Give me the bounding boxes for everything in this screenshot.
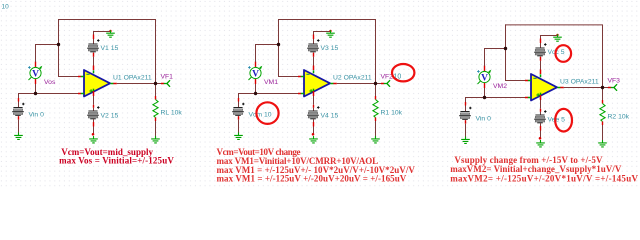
wire probe bottom bbox=[35, 79, 37, 85]
battery V2 15 bbox=[88, 111, 97, 112]
wire probe top tap bbox=[35, 62, 37, 68]
svg-text:V: V bbox=[481, 74, 488, 84]
wire supply top to opamp bbox=[540, 55, 542, 58]
svg-text:VF3: VF3 bbox=[608, 78, 621, 85]
ground supply bottom bbox=[309, 136, 318, 143]
wire output bbox=[113, 83, 117, 85]
wire feedback top rail U3 OPAx211 bbox=[505, 24, 602, 26]
ground source bbox=[234, 133, 243, 140]
wire inverting input row bbox=[505, 80, 525, 82]
annotation circle around Vcm value bbox=[256, 102, 278, 124]
probe VM1 bbox=[249, 68, 261, 80]
svg-text:V1 15: V1 15 bbox=[101, 45, 119, 52]
svg-text:Vin 0: Vin 0 bbox=[29, 112, 45, 119]
wire feedback top rail U2 OPAx211 bbox=[278, 19, 375, 21]
junction output / load bbox=[154, 82, 157, 85]
wire source Vin 0 top bbox=[18, 93, 20, 98]
resistor RL 10k bbox=[153, 100, 158, 118]
svg-text:V3 15: V3 15 bbox=[321, 45, 339, 52]
wire supply top to opamp bbox=[93, 51, 95, 54]
svg-text:V2 15: V2 15 bbox=[101, 113, 119, 120]
wire supply bottom to ground bbox=[540, 123, 542, 126]
battery V3 15 bbox=[308, 44, 317, 45]
junction probe / plus rail bbox=[483, 96, 486, 99]
annotation circle around VF2 value bbox=[392, 64, 414, 81]
wire source bottom bbox=[238, 115, 240, 118]
svg-text:VF1: VF1 bbox=[161, 74, 174, 81]
wire feedback top rail U1 OPAx211 bbox=[58, 19, 155, 21]
svg-text:V: V bbox=[32, 70, 39, 80]
svg-text:V: V bbox=[252, 70, 259, 80]
wire load bottom bbox=[155, 118, 157, 122]
battery Vee 5 bbox=[535, 115, 544, 116]
ground load bbox=[598, 140, 607, 147]
op-amp U3 OPAx211 bbox=[531, 74, 557, 101]
annotation circle around Vee value bbox=[555, 109, 572, 132]
output pin VF3 bbox=[611, 85, 616, 91]
svg-text:U2 OPAx211: U2 OPAx211 bbox=[333, 74, 372, 81]
svg-text:RL 10k: RL 10k bbox=[161, 110, 183, 117]
ground supply top bbox=[106, 30, 115, 37]
wire feedback left vertical bbox=[505, 24, 507, 80]
svg-text:R1 10k: R1 10k bbox=[381, 110, 403, 117]
wire source Vcm 10 top bbox=[238, 93, 240, 98]
svg-text:Vcm 10: Vcm 10 bbox=[249, 112, 272, 119]
wire probe bottom bbox=[484, 83, 486, 89]
svg-text:R2 10k: R2 10k bbox=[608, 114, 630, 121]
wire feedback left vertical bbox=[58, 19, 60, 76]
svg-text:Vin 0: Vin 0 bbox=[476, 116, 492, 123]
svg-text:maxVM2= Vinitial+change_Vsuppl: maxVM2= Vinitial+change_Vsupply*1uV/V bbox=[450, 164, 622, 174]
ground supply bottom bbox=[536, 140, 545, 147]
junction probe tap / feedback bbox=[277, 43, 280, 46]
ground load bbox=[151, 136, 160, 143]
wire probe top tap bbox=[255, 62, 257, 68]
resistor R2 10k bbox=[600, 104, 605, 122]
wire source bottom bbox=[465, 119, 467, 122]
op-amp U2 OPAx211 bbox=[304, 70, 330, 97]
wire load top bbox=[375, 83, 377, 96]
wire supply top corner bbox=[93, 31, 111, 33]
wire feedback left vertical bbox=[278, 19, 280, 76]
wire load top bbox=[155, 83, 157, 96]
svg-text:max Vos = Vinitial=+/-125uV: max Vos = Vinitial=+/-125uV bbox=[59, 156, 174, 166]
battery Vcc 5 bbox=[535, 48, 544, 49]
svg-text:maxVM2= +/-125uV+/-20V*1uV/V =: maxVM2= +/-125uV+/-20V*1uV/V =+/-145uV bbox=[450, 173, 638, 183]
battery Vin 0 bbox=[13, 107, 22, 108]
svg-text:10: 10 bbox=[2, 4, 10, 11]
junction probe tap / feedback bbox=[504, 47, 507, 50]
svg-text:max VM1 = +/-125uV +/-20uV+20u: max VM1 = +/-125uV +/-20uV+20uV = +/-165… bbox=[217, 174, 407, 184]
junction probe / plus rail bbox=[254, 92, 257, 95]
svg-text:V4 15: V4 15 bbox=[321, 113, 339, 120]
wire supply top corner bbox=[540, 35, 558, 37]
wire probe top tap bbox=[484, 66, 486, 72]
junction probe tap / feedback bbox=[57, 43, 60, 46]
wire supply bottom to ground bbox=[93, 119, 95, 122]
wire load bottom bbox=[602, 122, 604, 126]
battery Vcm 10 bbox=[233, 107, 242, 108]
resistor R1 10k bbox=[373, 100, 378, 118]
ground supply top bbox=[326, 30, 335, 37]
battery V4 15 bbox=[308, 111, 317, 112]
annotation circle around Vcc value bbox=[556, 45, 572, 62]
wire output bbox=[560, 87, 564, 89]
wire opamp to supply bottom bbox=[93, 91, 95, 96]
wire inverting input row bbox=[278, 76, 298, 78]
wire noninverting input rail bbox=[238, 93, 298, 95]
svg-text:U1 OPAx211: U1 OPAx211 bbox=[113, 74, 152, 81]
ground load bbox=[371, 136, 380, 143]
svg-text:VM1: VM1 bbox=[264, 79, 278, 86]
ground supply top bbox=[553, 34, 562, 41]
battery Vin 0 bbox=[460, 111, 469, 112]
wire noninverting input rail bbox=[465, 97, 525, 99]
wire opamp to supply bottom bbox=[540, 95, 542, 100]
wire load bottom bbox=[375, 118, 377, 122]
op-amp U1 OPAx211 bbox=[84, 70, 110, 97]
wire source bottom bbox=[18, 115, 20, 118]
wire inverting input row bbox=[58, 76, 78, 78]
junction output / load bbox=[601, 86, 604, 89]
ground source bbox=[461, 137, 470, 144]
wire opamp to supply bottom bbox=[313, 91, 315, 96]
svg-text:U3 OPAx211: U3 OPAx211 bbox=[560, 78, 599, 85]
wire supply top corner bbox=[313, 31, 331, 33]
probe VM2 bbox=[478, 72, 490, 84]
wire load top bbox=[602, 87, 604, 100]
wire feedback right vertical bbox=[155, 19, 157, 83]
wire output bbox=[333, 83, 337, 85]
wire noninverting input rail bbox=[18, 93, 78, 95]
wire probe bottom bbox=[255, 79, 257, 85]
ground source bbox=[14, 133, 23, 140]
svg-text:Vos: Vos bbox=[44, 79, 56, 86]
probe Vos bbox=[29, 68, 41, 80]
junction output / load bbox=[374, 82, 377, 85]
output pin VF2 bbox=[384, 81, 389, 87]
wire supply top to opamp bbox=[313, 51, 315, 54]
battery V1 15 bbox=[88, 44, 97, 45]
output pin VF1 bbox=[164, 81, 169, 87]
svg-text:VM2: VM2 bbox=[493, 83, 507, 90]
wire supply bottom to ground bbox=[313, 119, 315, 122]
wire feedback right vertical bbox=[375, 19, 377, 83]
wire source Vin 0 top bbox=[465, 97, 467, 102]
wire feedback right vertical bbox=[602, 24, 604, 87]
ground supply bottom bbox=[89, 136, 98, 143]
junction probe / plus rail bbox=[34, 92, 37, 95]
